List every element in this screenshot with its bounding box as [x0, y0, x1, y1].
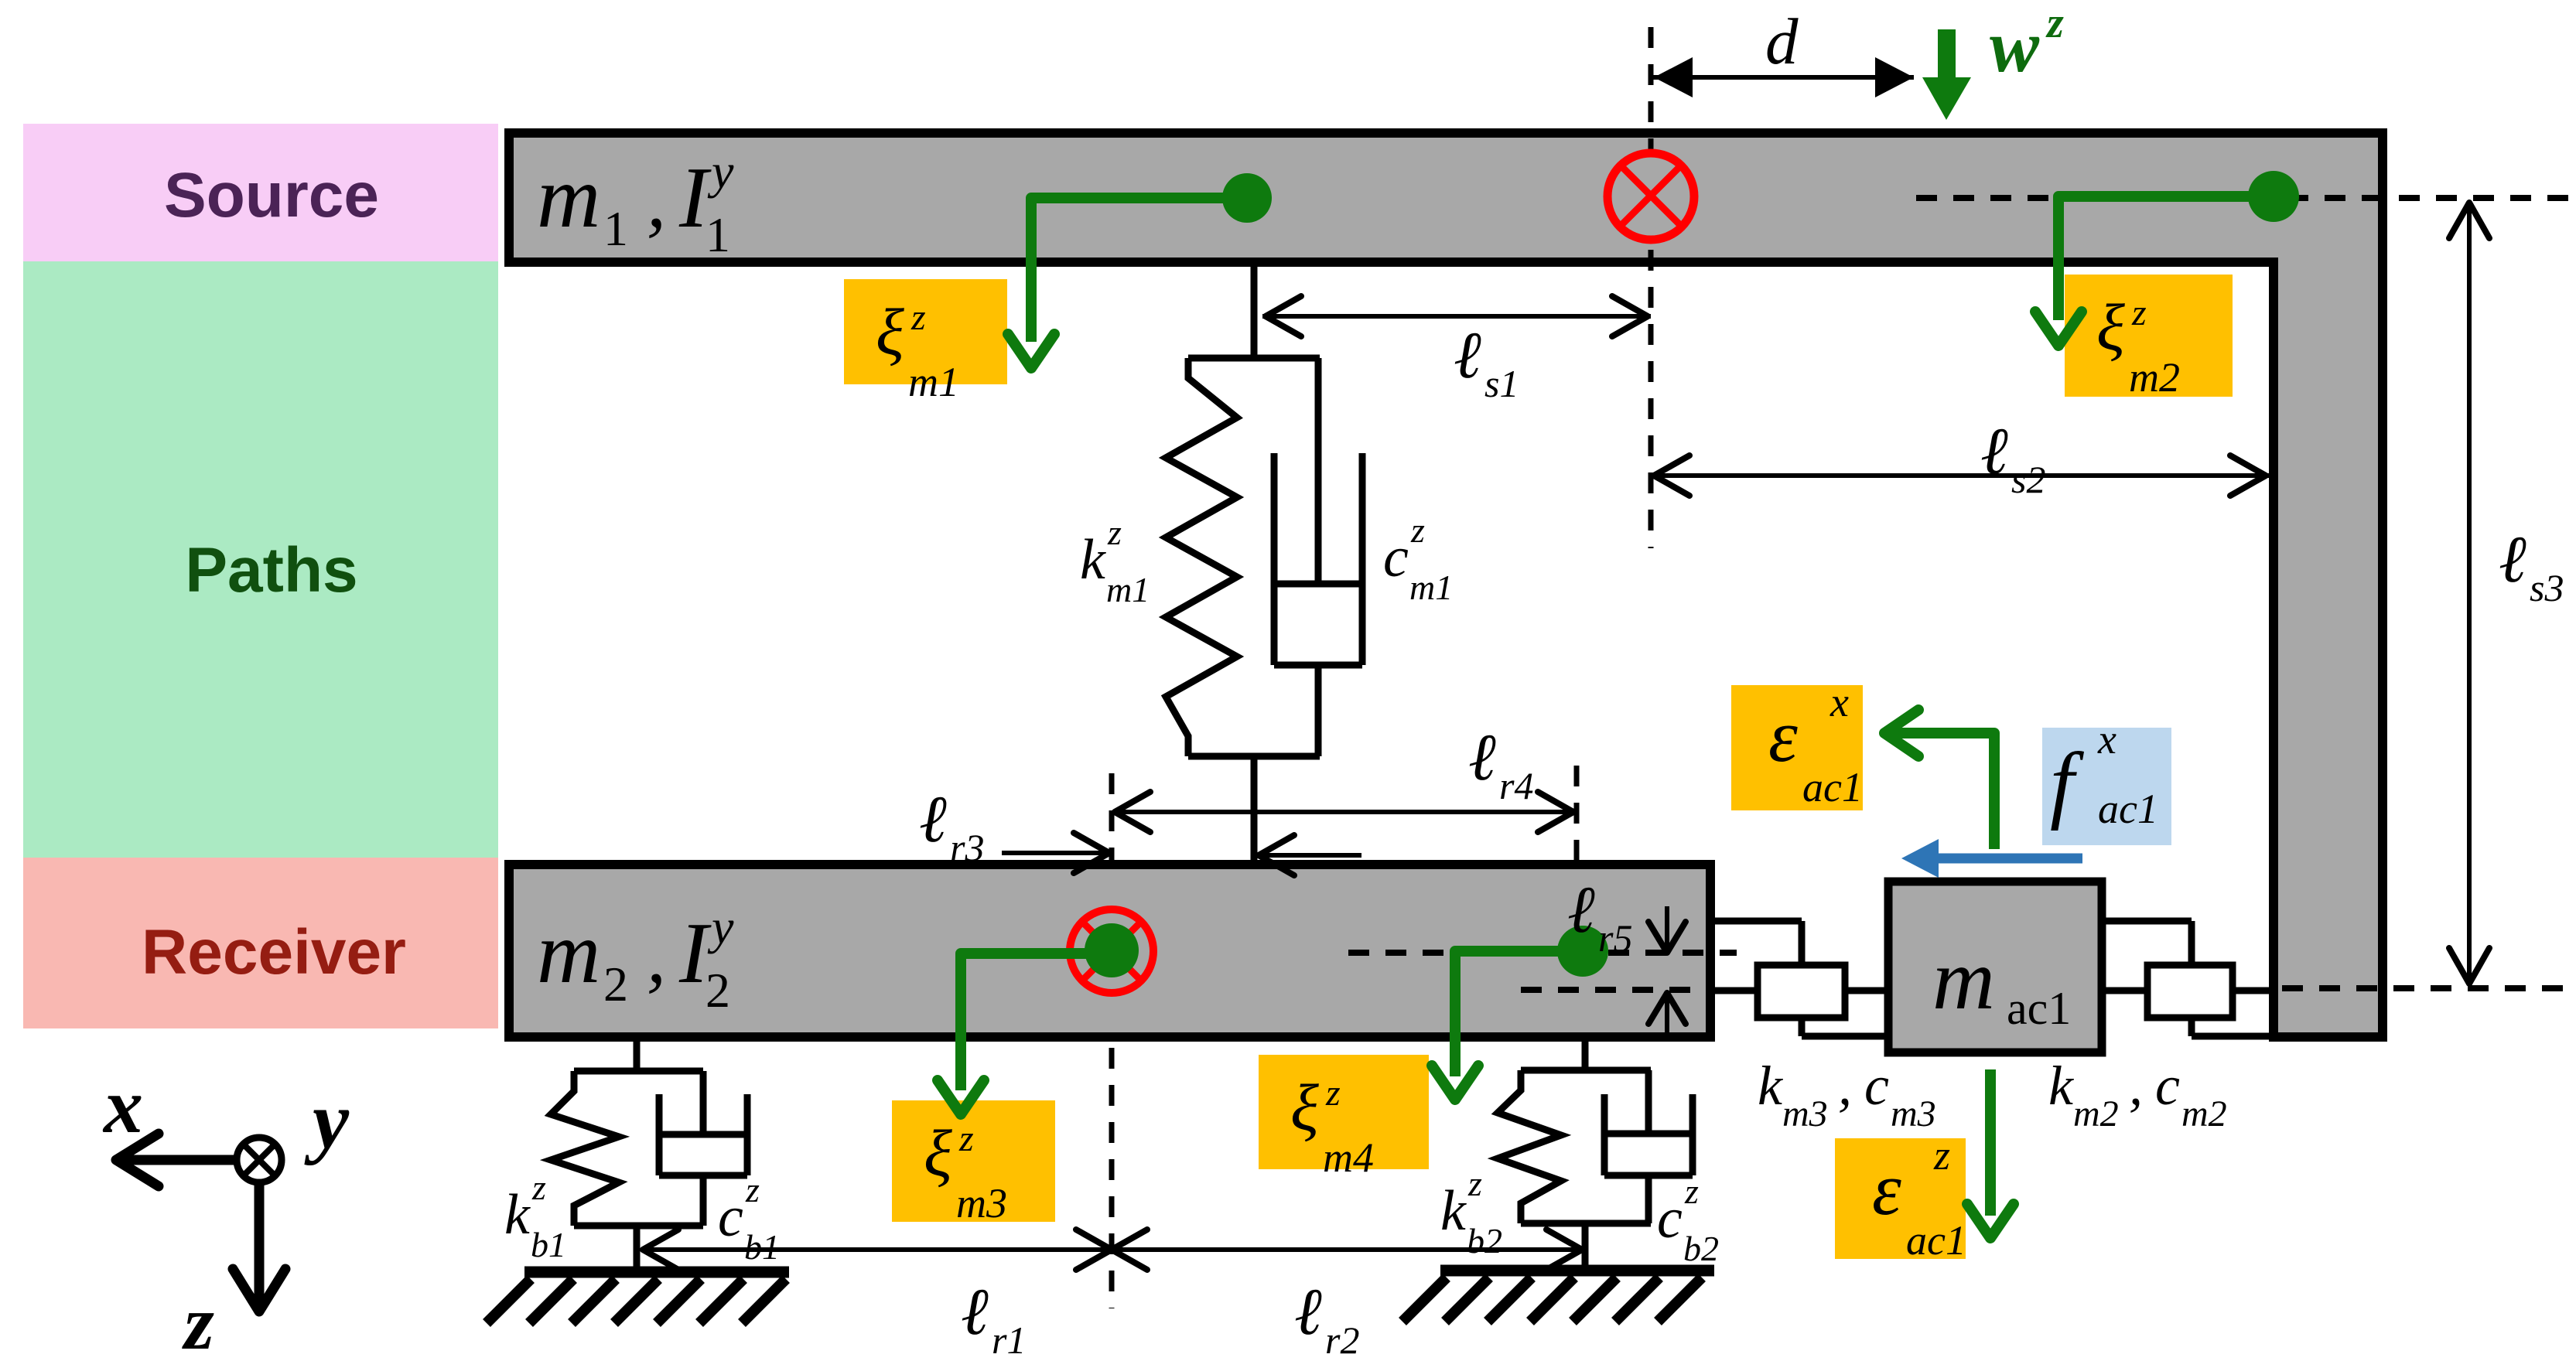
svg-text:1: 1	[705, 207, 730, 262]
svg-text:,: ,	[647, 913, 666, 999]
svg-text:r3: r3	[950, 826, 984, 869]
svg-text:1: 1	[603, 201, 628, 256]
svg-text:m1: m1	[1106, 570, 1150, 609]
svg-text:z: z	[910, 297, 926, 338]
svg-text:2: 2	[705, 963, 730, 1018]
svg-text:z: z	[1325, 1073, 1341, 1114]
svg-text:Receiver: Receiver	[142, 917, 406, 987]
svg-text:ε: ε	[1768, 694, 1798, 777]
svg-text:z: z	[1684, 1172, 1699, 1211]
svg-text:x: x	[1830, 679, 1849, 725]
svg-text:c: c	[1657, 1187, 1683, 1250]
svg-text:,: ,	[2129, 1055, 2143, 1117]
svg-text:z: z	[1410, 510, 1425, 550]
svg-text:ξ: ξ	[876, 295, 904, 369]
svg-text:ε: ε	[1872, 1148, 1901, 1230]
svg-text:b2: b2	[1683, 1229, 1719, 1268]
svg-text:ℓ: ℓ	[919, 782, 947, 856]
svg-text:k: k	[1440, 1179, 1467, 1243]
svg-text:ℓ: ℓ	[1454, 318, 1481, 392]
svg-text:d: d	[1765, 5, 1799, 78]
svg-text:m1: m1	[908, 359, 959, 405]
svg-text:ac1: ac1	[2007, 983, 2071, 1034]
svg-text:c: c	[718, 1185, 743, 1249]
svg-text:s2: s2	[2011, 458, 2045, 501]
svg-text:ℓ: ℓ	[2499, 522, 2526, 596]
svg-text:w: w	[1990, 5, 2040, 87]
svg-text:ℓ: ℓ	[1567, 872, 1595, 947]
svg-text:ac1: ac1	[2098, 786, 2158, 832]
svg-text:ξ: ξ	[924, 1116, 952, 1190]
svg-text:s3: s3	[2530, 566, 2564, 609]
svg-text:m3: m3	[956, 1180, 1007, 1226]
svg-text:ℓ: ℓ	[961, 1274, 989, 1349]
svg-text:z: z	[1107, 513, 1122, 552]
svg-text:z: z	[2131, 292, 2147, 333]
svg-text:c: c	[2155, 1055, 2180, 1117]
svg-text:z: z	[531, 1168, 546, 1207]
svg-text:Source: Source	[164, 160, 379, 230]
svg-text:m: m	[537, 903, 600, 1001]
svg-text:m1: m1	[1409, 568, 1453, 607]
svg-text:m3: m3	[1891, 1093, 1936, 1134]
svg-text:x: x	[2097, 716, 2116, 762]
svg-text:m2: m2	[2181, 1093, 2227, 1134]
svg-text:m3: m3	[1782, 1093, 1828, 1134]
svg-text:m: m	[1932, 932, 1995, 1028]
svg-text:ξ: ξ	[1290, 1070, 1319, 1144]
svg-text:b1: b1	[744, 1227, 780, 1267]
svg-text:ℓ: ℓ	[1468, 720, 1496, 794]
svg-text:m2: m2	[2129, 354, 2180, 401]
svg-text:b2: b2	[1467, 1221, 1502, 1260]
svg-text:c: c	[1864, 1055, 1889, 1117]
svg-text:Paths: Paths	[185, 535, 357, 605]
svg-text:y: y	[707, 144, 734, 199]
svg-text:b1: b1	[531, 1225, 566, 1264]
svg-text:m4: m4	[1323, 1134, 1374, 1181]
svg-text:ℓ: ℓ	[1980, 414, 2008, 488]
svg-text:ac1: ac1	[1906, 1217, 1966, 1264]
svg-text:z: z	[958, 1118, 974, 1159]
svg-text:s1: s1	[1484, 362, 1519, 405]
svg-text:,: ,	[1838, 1055, 1852, 1117]
svg-text:z: z	[1467, 1164, 1482, 1203]
svg-text:k: k	[504, 1183, 531, 1247]
svg-text:ξ: ξ	[2096, 290, 2125, 364]
svg-text:m: m	[537, 148, 600, 246]
svg-text:ac1: ac1	[1802, 764, 1863, 810]
svg-text:r5: r5	[1598, 916, 1632, 960]
svg-text:z: z	[182, 1280, 214, 1361]
svg-text:,: ,	[647, 158, 666, 244]
svg-text:c: c	[1383, 526, 1409, 589]
svg-text:z: z	[2045, 0, 2064, 47]
svg-text:r1: r1	[992, 1318, 1026, 1361]
svg-text:2: 2	[603, 957, 628, 1011]
svg-text:k: k	[1758, 1055, 1784, 1117]
svg-text:k: k	[1080, 528, 1106, 592]
svg-text:ℓ: ℓ	[1294, 1274, 1322, 1349]
svg-text:y: y	[707, 899, 734, 954]
svg-text:z: z	[745, 1170, 760, 1209]
svg-text:z: z	[1933, 1132, 1950, 1179]
svg-text:m2: m2	[2073, 1093, 2119, 1134]
svg-text:r2: r2	[1325, 1318, 1359, 1361]
svg-text:r4: r4	[1499, 764, 1533, 807]
svg-text:k: k	[2048, 1055, 2075, 1117]
svg-text:x: x	[102, 1063, 143, 1150]
